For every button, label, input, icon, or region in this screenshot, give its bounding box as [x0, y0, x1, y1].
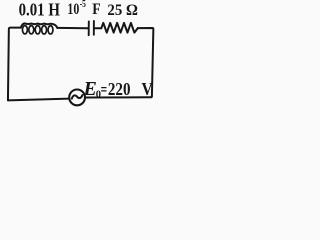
ac source E0 circle — [69, 90, 85, 106]
wire: capacitor to resistor — [95, 27, 102, 29]
capacitor C1 left plate — [88, 21, 90, 35]
inductor L1 loop 3 — [35, 26, 40, 34]
inductor L1 0.01 H : lead-in, top scallops, lead-out — [21, 23, 58, 28]
svg-text:10: 10 — [67, 1, 79, 18]
inductor L1 loop 5 — [48, 26, 53, 34]
svg-text:25 Ω: 25 Ω — [107, 2, 138, 19]
inductor L1 loop 1 — [22, 26, 27, 34]
capacitor C1 right plate — [93, 21, 95, 35]
svg-text:=: = — [101, 80, 108, 99]
ac source sine symbol — [72, 95, 83, 99]
svg-text:F: F — [92, 1, 101, 18]
svg-text:V: V — [142, 79, 154, 99]
svg-text:E: E — [83, 78, 97, 100]
wire: inductor to capacitor — [57, 27, 88, 29]
svg-text:220: 220 — [108, 79, 131, 99]
svg-text:-5: -5 — [80, 0, 86, 10]
inductor L1 loop 2 — [29, 26, 34, 34]
wire: resistor to top-right corner, right side, bottom-right run to source — [85, 28, 153, 98]
resistor R1 25 ohm zigzag — [101, 23, 138, 33]
wire: top-left corner, left side, bottom-left run to source — [8, 28, 69, 101]
svg-text:0.01 H: 0.01 H — [19, 0, 60, 20]
inductor L1 loop 4 — [42, 26, 47, 34]
